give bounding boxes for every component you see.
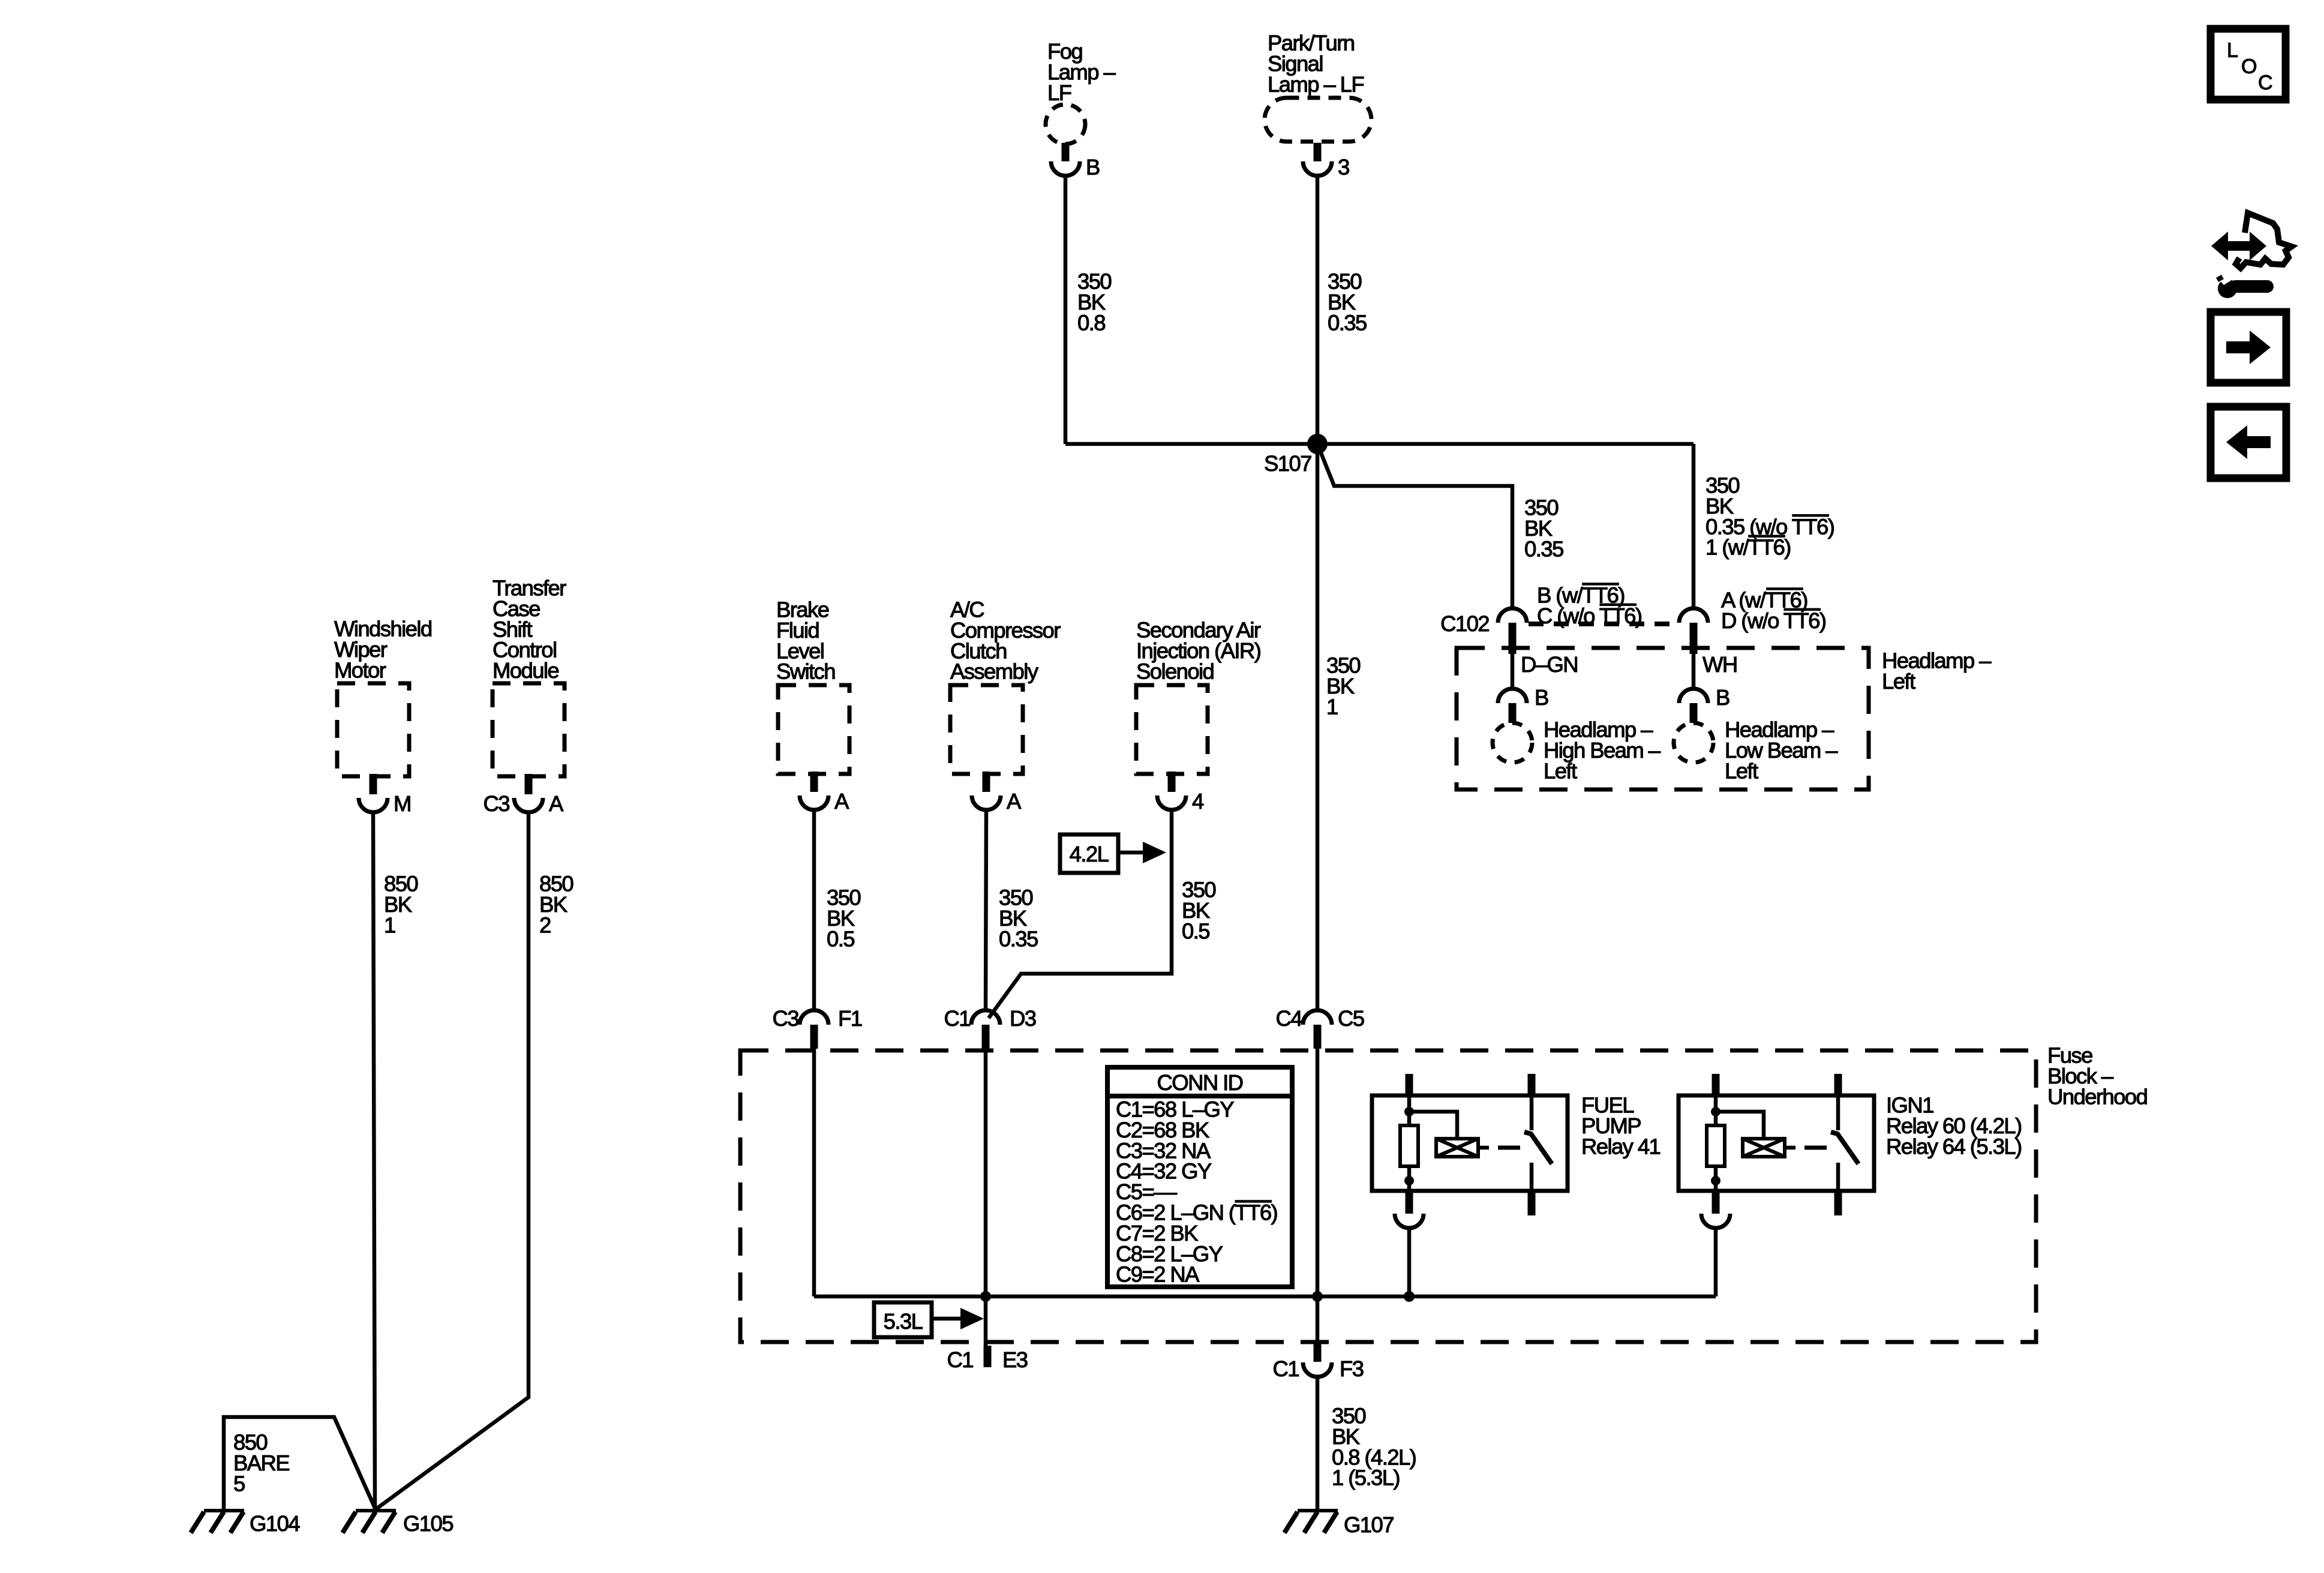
label Headlamp High Beam Left [1544, 718, 1661, 784]
IGN1 relay switch lower contact [1836, 1163, 1840, 1191]
connector C3 F1 [800, 1010, 828, 1025]
connector C1 D3 [971, 1010, 1000, 1025]
wire 350 BK to G107 [1316, 1377, 1320, 1509]
secondary air injection solenoid box [1136, 685, 1208, 774]
next-page arrow box [2211, 312, 2286, 383]
wire label 350 BK 0.5 (brake) [827, 885, 860, 951]
connector cup at a/c pin A [972, 795, 1001, 810]
connector headlamp high beam pin B [1498, 689, 1527, 703]
IGN1 relay coil to switch link [1785, 1146, 1795, 1150]
park/turn signal lamp LF [1265, 98, 1371, 142]
wire S107 to right corner [1317, 442, 1694, 446]
headlamp left assembly box [1457, 648, 1869, 789]
headlamp low beam pin bar [1690, 703, 1698, 723]
label Fog Lamp - LF [1047, 39, 1116, 105]
connector cup at air solenoid pin 4 [1157, 795, 1186, 810]
svg-text:Relay 41: Relay 41 [1581, 1134, 1661, 1158]
IGN1 relay coil resistor [1707, 1125, 1725, 1166]
svg-text:M: M [394, 791, 411, 816]
svg-text:3: 3 [1338, 155, 1349, 179]
IGN1 relay switch blade [1831, 1132, 1858, 1164]
svg-text:1: 1 [384, 912, 395, 937]
fuel pump relay coil branch [1409, 1112, 1457, 1139]
svg-text:S107: S107 [1264, 451, 1311, 476]
wire 350 BK 0.35 a/c clutch [986, 810, 986, 1010]
wire label 350 BK 0.35 (a/c) [999, 885, 1038, 951]
terminal pin E3 [984, 1346, 992, 1367]
svg-text:G105: G105 [403, 1511, 453, 1536]
junction D3 wire on bus [980, 1291, 991, 1302]
wire WH inside headlamp [1692, 654, 1696, 689]
svg-text:Left: Left [1725, 758, 1758, 783]
fuel pump relay coil wire [1407, 1095, 1412, 1125]
C102 inline connector dashed line [1529, 622, 1678, 626]
C102 pin bar right [1690, 623, 1698, 654]
service icon panel outline [2236, 213, 2292, 268]
wire 350 BK 0.35 from park/turn lamp [1316, 176, 1320, 444]
headlamp high beam bulb [1493, 723, 1532, 763]
IGN1 relay coil top pin [1712, 1074, 1720, 1095]
svg-text:E3: E3 [1002, 1347, 1028, 1372]
air solenoid pin 4 [1168, 772, 1176, 792]
wire C5 through bus to F3 [1316, 1049, 1320, 1342]
svg-text:CONN ID: CONN ID [1157, 1070, 1243, 1095]
node S107 [1307, 434, 1328, 454]
connector C4 C5 [1303, 1010, 1332, 1025]
svg-text:B: B [1086, 155, 1100, 179]
fuse block underhood box [740, 1050, 2036, 1342]
4.2L reference arrow [1118, 851, 1146, 855]
label FUEL PUMP Relay 41 [1581, 1093, 1661, 1159]
junction C5 wire on bus [1312, 1291, 1323, 1302]
svg-text:4: 4 [1192, 789, 1204, 813]
svg-text:C5: C5 [1338, 1006, 1364, 1031]
svg-text:O: O [2241, 55, 2256, 78]
connector cup at transfer case pin A [514, 798, 543, 812]
fuel pump relay solenoid coil [1436, 1139, 1478, 1157]
svg-text:C1: C1 [947, 1347, 974, 1372]
fuel pump relay junction lower [1404, 1176, 1414, 1185]
connector C102 pin B/C [1498, 608, 1527, 623]
svg-text:C3: C3 [484, 791, 510, 816]
connector headlamp low beam pin B [1679, 689, 1708, 703]
fuel pump relay switch blade [1524, 1132, 1552, 1164]
label Headlamp Low Beam Left [1725, 718, 1838, 784]
transfer case pin A [525, 774, 533, 794]
overline TT6 (C w/o) [1599, 604, 1637, 607]
a/c compressor clutch box [950, 685, 1023, 774]
headlamp low beam bulb [1674, 723, 1713, 763]
connector cup at park/turn pin 3 [1303, 161, 1332, 176]
label Headlamp - Left [1882, 649, 1992, 694]
svg-text:Motor: Motor [334, 658, 386, 682]
LOC legend box [2211, 29, 2286, 100]
svg-text:L: L [2227, 39, 2238, 62]
fuel pump relay switch bottom pin [1528, 1191, 1536, 1215]
transfer case module box [493, 683, 565, 776]
IGN1 relay junction upper [1711, 1107, 1721, 1116]
IGN1 relay ground wire [1714, 1228, 1718, 1296]
next-page arrow [2226, 331, 2271, 364]
svg-text:Left: Left [1544, 758, 1577, 783]
pin label B/C (w TT6) [1537, 583, 1641, 628]
wiper motor pin M [370, 774, 377, 794]
pin bar C5 [1314, 1025, 1322, 1049]
wire 350 BK 0.5 air solenoid [989, 810, 1172, 1018]
overline TT6 (A w/) [1766, 587, 1803, 590]
wire label 350 BK 0.8/1 [1332, 1404, 1416, 1490]
svg-text:LF: LF [1047, 80, 1071, 105]
svg-text:0.8: 0.8 [1077, 310, 1105, 335]
fuel pump relay coil wire lower [1407, 1166, 1412, 1191]
svg-text:Module: Module [493, 658, 559, 683]
IGN1 relay coil bottom pin [1712, 1191, 1720, 1214]
svg-text:F3: F3 [1340, 1356, 1364, 1381]
fuel pump relay switch upper contact [1530, 1095, 1534, 1130]
fuel pump relay ground wire [1407, 1228, 1412, 1296]
svg-text:D–GN: D–GN [1521, 652, 1578, 677]
wire right corner down to C102 pin D [1692, 444, 1696, 608]
IGN1 relay solenoid coil [1743, 1139, 1785, 1157]
C102 pin bar left [1509, 623, 1517, 654]
svg-text:WH: WH [1703, 652, 1737, 677]
svg-text:1: 1 [1326, 694, 1338, 719]
svg-text:A: A [1007, 789, 1022, 813]
label A/C Compressor Clutch Assembly [950, 598, 1061, 684]
overline TT6 (D w/o) [1783, 608, 1821, 611]
svg-text:Switch: Switch [776, 659, 835, 684]
fuel pump relay junction upper [1404, 1107, 1414, 1116]
svg-text:2: 2 [539, 912, 551, 937]
pin bar F3 [1314, 1342, 1322, 1362]
fuel pump relay box [1372, 1095, 1568, 1191]
fuel pump relay coil top pin [1406, 1074, 1413, 1095]
wire fog lamp to S107 [1065, 442, 1317, 446]
wire label 350 BK 0.35 [1328, 269, 1367, 335]
pin bar D3 [982, 1025, 990, 1049]
5.3L reference arrow [932, 1317, 963, 1321]
IGN1 relay coil branch [1716, 1112, 1764, 1139]
svg-text:Left: Left [1882, 669, 1915, 694]
svg-text:1 (w/TT6): 1 (w/TT6) [1706, 535, 1791, 560]
svg-text:5.3L: 5.3L [884, 1309, 923, 1334]
IGN1 relay coil wire lower [1714, 1166, 1718, 1191]
fuel pump relay coil bottom pin [1406, 1191, 1413, 1214]
wire label 350 BK 0.35/1 (right branch) [1706, 473, 1834, 560]
svg-text:D (w/o TT6): D (w/o TT6) [1721, 608, 1825, 633]
wire 350 BK 0.5 brake switch [812, 810, 816, 1010]
wire label 350 BK 0.35 (left branch) [1524, 496, 1563, 562]
IGN1 relay switch bottom pin [1834, 1191, 1842, 1215]
connector cup at wiper pin M [359, 798, 388, 812]
prev-page arrow [2226, 425, 2271, 459]
ground G104 [191, 1511, 244, 1533]
service icon double arrow [2211, 232, 2266, 260]
wire label 350 BK 0.8 [1077, 269, 1111, 335]
label Windshield Wiper Motor [334, 617, 432, 683]
svg-text:B: B [1535, 685, 1548, 710]
wire label 350 BK 1 [1326, 653, 1360, 719]
svg-text:4.2L: 4.2L [1070, 842, 1109, 866]
label IGN1 Relay 60/64 [1886, 1093, 2022, 1159]
svg-text:C3: C3 [773, 1006, 799, 1031]
connector C102 pin A/D [1679, 608, 1708, 623]
CONN ID rows [1116, 1097, 1277, 1287]
svg-text:A: A [834, 789, 849, 813]
svg-text:G107: G107 [1344, 1512, 1394, 1537]
IGN1 relay junction lower [1711, 1176, 1721, 1185]
connector C1 F3 [1303, 1362, 1332, 1377]
svg-text:A: A [549, 791, 564, 816]
svg-text:G104: G104 [250, 1511, 300, 1536]
CONN ID table [1107, 1067, 1292, 1287]
headlamp high beam pin bar [1509, 703, 1517, 723]
fuel pump relay switch top pin [1528, 1074, 1536, 1095]
overline TT6 (0.35 w/o) [1792, 514, 1829, 517]
ground G105 [343, 1511, 396, 1533]
wire 850 BK 2 to G105 [376, 812, 529, 1509]
svg-text:C102: C102 [1440, 611, 1489, 636]
svg-text:C: C [2258, 71, 2272, 94]
wire S107 diagonal branch [1317, 444, 1512, 608]
label Brake Fluid Level Switch [776, 598, 835, 684]
svg-text:Assembly: Assembly [950, 659, 1039, 684]
wire 850 BK 1 to G105 [373, 812, 375, 1509]
label Fuse Block - Underhood [2047, 1043, 2147, 1109]
IGN1 relay switch top pin [1834, 1074, 1842, 1095]
svg-text:C9=2 NA: C9=2 NA [1116, 1262, 1200, 1287]
5.3L engine reference box [874, 1302, 932, 1337]
fuel pump relay actuation dashed link [1498, 1146, 1520, 1150]
svg-text:F1: F1 [838, 1006, 862, 1031]
svg-text:0.35: 0.35 [999, 926, 1038, 951]
wire 350 BK 1 main down [1316, 444, 1320, 1010]
fuel pump relay coil resistor [1400, 1125, 1418, 1166]
svg-text:0.5: 0.5 [827, 926, 854, 951]
svg-text:0.35: 0.35 [1524, 536, 1563, 561]
connector cup at brake switch pin A [800, 795, 828, 810]
wire label 350 BK 0.5 (air) [1182, 878, 1215, 944]
connector cup at fog lamp pin B [1051, 161, 1080, 176]
wire D3 through bus to E3 [984, 1049, 988, 1346]
fog lamp pin B [1062, 143, 1070, 161]
svg-text:0.5: 0.5 [1182, 918, 1209, 943]
fuel pump relay coil to switch link [1478, 1146, 1489, 1150]
svg-text:C4: C4 [1276, 1006, 1303, 1031]
a/c clutch pin A [983, 772, 990, 792]
IGN1 relay coil wire [1714, 1095, 1718, 1125]
prev-page arrow box [2211, 407, 2286, 478]
pin bar F1 [810, 1025, 818, 1049]
overline TT6 (B w/) [1582, 583, 1619, 586]
svg-text:Relay 64 (5.3L): Relay 64 (5.3L) [1886, 1134, 2022, 1158]
svg-text:Lamp – LF: Lamp – LF [1268, 72, 1364, 97]
wire label 850 BK 1 [384, 872, 418, 938]
brake fluid level switch box [778, 685, 849, 774]
svg-text:B: B [1716, 685, 1730, 710]
wire 350 BK 0.8 from fog lamp [1064, 176, 1068, 444]
svg-text:C1: C1 [944, 1006, 971, 1031]
brake switch pin A [810, 772, 818, 792]
fog lamp LF [1046, 104, 1085, 144]
ground G107 [1284, 1511, 1338, 1533]
park/turn lamp pin 3 [1314, 143, 1322, 161]
IGN1 relay switch upper contact [1836, 1095, 1840, 1130]
svg-text:Underhood: Underhood [2047, 1084, 2147, 1109]
wire 850 BARE 5 [224, 1417, 376, 1509]
IGN1 relay actuation dashed link [1804, 1146, 1827, 1150]
IGN1 relay coil output connector [1701, 1214, 1730, 1228]
pin label A/D (w TT6) [1721, 588, 1825, 633]
service icon wrench [2218, 279, 2237, 298]
fuel pump relay switch lower contact [1530, 1163, 1534, 1191]
wire ground bus in fuse block [814, 1295, 1716, 1299]
label Transfer Case Shift Control Module [493, 576, 566, 683]
svg-text:5: 5 [233, 1471, 245, 1496]
svg-text:Solenoid: Solenoid [1136, 659, 1214, 683]
svg-text:0.35: 0.35 [1328, 310, 1367, 335]
svg-text:D3: D3 [1010, 1006, 1036, 1031]
IGN1 relay box [1679, 1095, 1874, 1191]
svg-text:1 (5.3L): 1 (5.3L) [1332, 1466, 1400, 1490]
overline TT6 (C6 row) [1235, 1200, 1272, 1203]
wire D-GN inside headlamp [1511, 654, 1515, 689]
fuel pump relay coil output connector [1395, 1214, 1424, 1228]
wire F1 to bus [812, 1049, 816, 1296]
windshield wiper motor box [337, 683, 409, 776]
wire label 850 BK 2 [539, 872, 573, 938]
label Park/Turn Signal Lamp - LF [1268, 31, 1364, 97]
4.2L engine reference box [1060, 834, 1118, 873]
overline TT6 (1 w/) [1748, 535, 1785, 538]
junction fuel pump relay wire on bus [1404, 1291, 1415, 1302]
wire label 850 BARE 5 [233, 1430, 289, 1496]
label Secondary Air Injection Solenoid [1136, 618, 1261, 684]
svg-text:C1: C1 [1273, 1356, 1299, 1381]
